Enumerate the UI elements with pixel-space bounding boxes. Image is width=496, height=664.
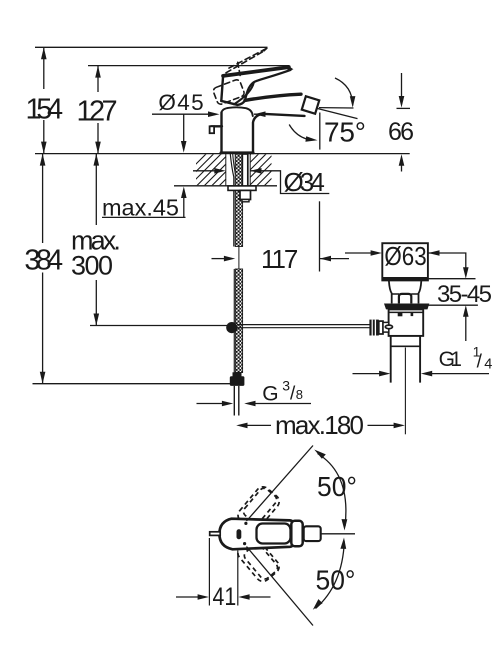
dimension texts xyxy=(24,90,492,440)
dim line max300 vertical xyxy=(95,154,97,225)
reference line max300 bottom xyxy=(90,325,227,327)
arrow Ø45 leader down xyxy=(181,141,187,153)
dim line 384 vertical xyxy=(42,154,44,243)
arrow max45 up xyxy=(181,187,187,199)
braided hose lower segment xyxy=(235,269,242,373)
hole edge left xyxy=(225,154,227,186)
arrow Ø34 left side xyxy=(214,168,225,174)
mounting nut xyxy=(240,190,251,199)
svg-text:384: 384 xyxy=(24,244,63,276)
dim Ø63 right line + corner xyxy=(428,253,466,268)
counter bottom line xyxy=(174,185,277,187)
hose break centerline xyxy=(238,247,240,270)
dim G1 1/4 left line xyxy=(353,373,381,375)
arrow 117 right xyxy=(320,256,331,262)
lever bottom edge xyxy=(245,70,291,101)
svg-text:Ø34: Ø34 xyxy=(284,167,325,197)
body inner line xyxy=(389,311,424,313)
svg-text:max.180: max.180 xyxy=(275,410,364,440)
extension line 117 xyxy=(319,201,321,271)
dashed handle rotated up inner xyxy=(242,486,279,525)
neck right xyxy=(419,281,422,303)
arrow Ø45 left-pointing xyxy=(254,111,266,117)
screw dot bottom xyxy=(243,542,246,545)
dim G 3/8 right line xyxy=(255,403,312,405)
lower arc arrowhead top xyxy=(340,538,346,549)
threaded stud tube xyxy=(242,154,248,186)
dashed raised lever top edge xyxy=(229,48,267,68)
upper arc arrowhead bottom xyxy=(342,519,348,530)
tailpipe centerline xyxy=(404,348,406,435)
dim max180 right line xyxy=(368,424,395,426)
svg-text:50°: 50° xyxy=(317,471,357,502)
leader Ø45 to counter xyxy=(183,114,185,142)
svg-text:300: 300 xyxy=(71,251,113,281)
svg-text:75°: 75° xyxy=(324,117,366,148)
dim max45 underline xyxy=(102,216,186,218)
flange band xyxy=(384,304,429,310)
spout axis horizontal reference xyxy=(319,107,354,109)
body right edge + spout underside xyxy=(253,114,305,153)
reference line 384 bottom xyxy=(33,383,232,385)
arrow max180 left xyxy=(236,423,247,429)
actuator knurled knob xyxy=(369,320,378,336)
arrow 384 bottom xyxy=(40,372,46,384)
arrow 154 bottom xyxy=(41,142,47,154)
pivot screw xyxy=(385,325,392,329)
svg-text:G: G xyxy=(262,382,278,405)
extension line 35-45 top xyxy=(428,278,476,280)
neck left xyxy=(389,281,392,303)
svg-text:max.45: max.45 xyxy=(102,195,179,221)
dim 41 extension right xyxy=(237,551,239,606)
tee junction xyxy=(226,322,237,333)
svg-text:Ø63: Ø63 xyxy=(384,241,426,271)
hose end fitting xyxy=(233,372,242,376)
hose curve in hole xyxy=(230,154,234,247)
arrow max300 bottom xyxy=(94,314,100,326)
svg-text:4: 4 xyxy=(484,357,492,373)
arrow 154 top xyxy=(41,47,47,59)
arrow Ø63 left xyxy=(371,250,382,256)
dim 35-45 lower vertical xyxy=(465,317,467,342)
sub-deck supply assembly xyxy=(226,154,369,416)
svg-text:35-45: 35-45 xyxy=(437,281,492,308)
svg-text:/: / xyxy=(477,352,483,373)
swing line lower xyxy=(247,547,314,626)
arrow 384 top xyxy=(40,154,46,166)
svg-text:66: 66 xyxy=(388,118,414,146)
upper arc xyxy=(335,78,353,106)
lower arc arrowhead bottom xyxy=(313,599,323,610)
solid lever top edge xyxy=(223,67,289,76)
tailpipe shoulder line xyxy=(391,345,420,347)
dashed raised lever front face xyxy=(212,79,245,106)
horizontal linkage hose to drain xyxy=(237,324,370,326)
dashed handle rotated down outer xyxy=(235,535,282,584)
screw dot top xyxy=(244,522,247,525)
svg-text:G1: G1 xyxy=(439,348,462,371)
svg-text:154: 154 xyxy=(26,93,64,125)
dim 41 extension left xyxy=(208,538,210,606)
pop-up slot xyxy=(237,529,242,539)
svg-text:127: 127 xyxy=(77,96,118,128)
dim G1 1/4 right line xyxy=(432,373,490,375)
faucet body side view xyxy=(210,48,320,153)
body tab left xyxy=(398,312,403,316)
aerator end xyxy=(304,526,321,541)
arrow G114 right side xyxy=(421,371,432,377)
actuator collar xyxy=(379,321,383,334)
dashed raised lever tip xyxy=(263,48,267,51)
lever tip xyxy=(287,66,293,72)
plug lip band xyxy=(382,277,428,281)
arrow 41 left xyxy=(198,594,209,600)
arrow Ø45 right-pointing xyxy=(208,111,220,117)
arrow G38 left side xyxy=(222,401,233,407)
top view of faucet xyxy=(176,446,357,626)
arrow 35-45 down xyxy=(463,267,469,279)
75 degree annotation arcs xyxy=(289,78,355,142)
arrow 66 top down xyxy=(399,96,405,108)
arrow 41 right xyxy=(238,594,249,600)
dim G 3/8 left line xyxy=(197,403,223,405)
arrow 127 top xyxy=(95,66,101,78)
dim Ø63 left line xyxy=(345,252,372,254)
arrow max180 right xyxy=(394,423,405,429)
arrow 117 left xyxy=(224,256,235,262)
arrow Ø34 right side xyxy=(250,168,261,174)
dashed handle rotated up outer xyxy=(235,484,282,533)
pull rod stub xyxy=(210,532,221,536)
arrow G114 left side xyxy=(379,371,390,377)
dim max180 left line xyxy=(247,424,271,426)
counter top line xyxy=(35,153,410,155)
dashed raised lever neck xyxy=(238,62,241,78)
upper 50 arc xyxy=(318,454,346,527)
lever inner curve xyxy=(234,83,254,105)
dim 41 right line xyxy=(250,596,271,598)
plug top xyxy=(382,243,428,280)
neck shoulders xyxy=(392,293,419,295)
arrow max300 top xyxy=(94,154,100,166)
washer under deck xyxy=(228,186,256,191)
cartridge dome xyxy=(222,107,253,116)
dashed raised lever bottom edge xyxy=(226,52,263,73)
dim Ø34 left line xyxy=(193,170,215,172)
dim line 154 vertical xyxy=(43,47,45,89)
dim Ø34 right leader xyxy=(250,171,329,194)
actuator housing xyxy=(383,322,389,332)
body left edge xyxy=(220,113,222,154)
body outline xyxy=(219,519,293,550)
reference line top (154 level) xyxy=(35,46,268,48)
lower arc xyxy=(289,125,306,140)
dim line Ø45 xyxy=(152,113,209,115)
braided hose upper segment xyxy=(235,154,242,247)
dim 41 left line xyxy=(176,596,198,598)
drain body xyxy=(389,309,424,336)
base line xyxy=(221,151,254,154)
hole edge right xyxy=(249,154,251,186)
upper arc arrowhead top xyxy=(314,450,326,459)
arrow Ø63 right xyxy=(428,250,439,256)
svg-text:117: 117 xyxy=(261,244,298,274)
reference line (127 level) xyxy=(88,65,289,67)
dim line 127 vertical xyxy=(97,66,99,92)
supply tube end G38 xyxy=(233,386,235,416)
arrow G38 right side xyxy=(244,401,255,407)
spout collar xyxy=(291,521,302,547)
pop-up waste assembly xyxy=(369,243,429,434)
arrow 35-45 up xyxy=(463,305,469,317)
aerator tilted square xyxy=(302,96,319,113)
stem xyxy=(399,294,411,304)
leader max45 riser xyxy=(183,196,185,217)
dim 117 left line xyxy=(212,258,226,260)
svg-text:8: 8 xyxy=(296,387,303,402)
svg-text:Ø45: Ø45 xyxy=(158,90,203,115)
dim 66 ticks and lines xyxy=(397,107,411,109)
dim 117 right line xyxy=(320,258,349,260)
spout axis 75 line xyxy=(317,108,358,118)
deck hatching xyxy=(170,150,308,190)
body tab right xyxy=(411,312,414,316)
dashed handle rotated down inner xyxy=(242,542,279,581)
extension line 35-45 bottom xyxy=(426,304,478,306)
arrowheads group xyxy=(40,47,469,428)
pull-rod knob xyxy=(211,125,222,127)
svg-text:41: 41 xyxy=(213,583,237,611)
svg-text:50°: 50° xyxy=(316,565,356,596)
swing line upper xyxy=(247,446,314,522)
arrow 66 bottom up xyxy=(399,154,405,166)
lever front face left xyxy=(221,76,223,101)
axis centerline right xyxy=(321,533,355,535)
lever front bottom xyxy=(221,100,245,105)
lever top face xyxy=(257,524,291,544)
spout vertical reference xyxy=(319,113,321,150)
arrow 127 bottom xyxy=(95,142,101,154)
spout top edge xyxy=(245,94,301,100)
lower 50 arc xyxy=(316,542,345,609)
tailpipe xyxy=(391,336,420,383)
